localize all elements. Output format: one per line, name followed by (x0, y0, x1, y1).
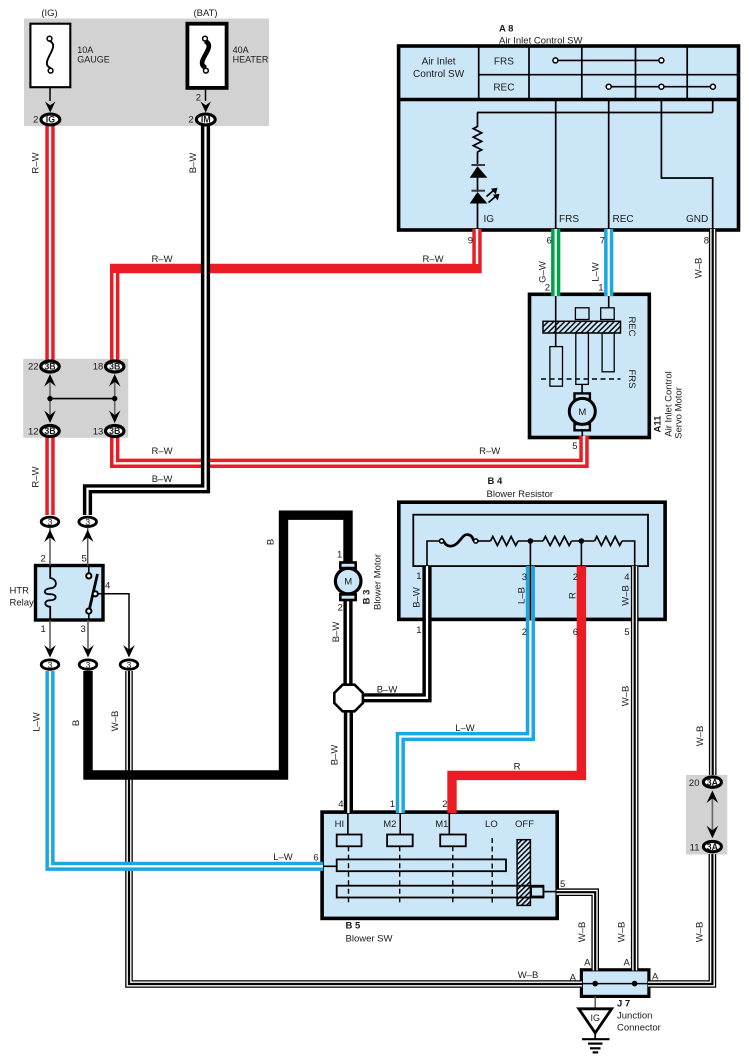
HTR relay switch contact top (88, 566, 90, 573)
wire L-W A8 to A11 (604, 229, 613, 296)
A11 motor brush top (575, 393, 590, 399)
svg-text:HEATER: HEATER (233, 55, 269, 65)
svg-text:1: 1 (337, 550, 342, 561)
junction dot B4 pin3 (528, 538, 534, 544)
svg-text:2: 2 (33, 114, 38, 125)
svg-text:3B: 3B (44, 426, 55, 436)
wire W-B B4 pin5 to J7 (631, 566, 639, 970)
arrow into 3B-18 (109, 374, 121, 387)
svg-text:2: 2 (338, 602, 343, 613)
svg-text:B–W: B–W (330, 745, 341, 766)
diode D1 in A8 (472, 164, 486, 166)
wire R-W from 3B-12 to connector 3 (45, 437, 54, 515)
B4 pin3 stripe line (529, 566, 531, 620)
A8 table column dividers (528, 46, 530, 100)
B5 M2 dashed line (399, 846, 401, 903)
A11 motor wire top (581, 384, 583, 393)
svg-text:3: 3 (86, 660, 91, 670)
svg-text:2: 2 (573, 572, 578, 583)
svg-text:IG: IG (46, 115, 55, 125)
svg-text:B: B (71, 720, 82, 726)
fuse (IG) element (47, 41, 53, 68)
svg-text:B–W: B–W (188, 153, 199, 174)
svg-text:W–B: W–B (621, 686, 632, 707)
svg-text:B–W: B–W (152, 474, 173, 485)
connector 3B pin13 (106, 426, 124, 437)
svg-text:3: 3 (522, 572, 527, 583)
B5 M2 pin wire (399, 814, 401, 835)
B5 pin5 link (543, 891, 558, 893)
A8 box fill (399, 46, 739, 230)
HTR relay pin4 wire (98, 594, 129, 651)
B4 wire fuse-res (478, 540, 491, 542)
A8 box border (399, 46, 739, 230)
svg-text:LO: LO (485, 819, 498, 830)
A8 FRS contact line (555, 59, 661, 61)
B5 box border (322, 812, 557, 918)
svg-text:B 3: B 3 (362, 590, 373, 605)
svg-text:4: 4 (624, 572, 629, 583)
svg-text:9: 9 (468, 236, 473, 247)
ground bar 2 (588, 1042, 603, 1044)
svg-text:4: 4 (338, 799, 343, 810)
svg-text:B–W: B–W (331, 622, 342, 643)
svg-text:4: 4 (105, 581, 110, 592)
wire B-W motor to octagon (343, 598, 352, 686)
svg-text:A: A (623, 958, 630, 969)
svg-text:B 4: B 4 (488, 476, 504, 487)
svg-text:11: 11 (690, 843, 700, 854)
svg-text:R–W: R–W (151, 254, 172, 265)
svg-text:2: 2 (522, 627, 527, 638)
svg-text:3: 3 (85, 517, 90, 527)
A11 REC pin wire (608, 296, 610, 308)
svg-text:3B: 3B (109, 362, 120, 372)
connector 3 below relay W-B (120, 660, 138, 670)
connector 3 on B-W (79, 517, 97, 527)
wire W-B relay to J7 (129, 671, 582, 984)
svg-text:R: R (514, 762, 521, 773)
svg-text:REC: REC (613, 214, 634, 225)
fuse (BAT) lead (205, 88, 207, 101)
A11 right small slider (601, 308, 615, 320)
svg-text:B: B (266, 539, 277, 545)
B4 circuit left leg (427, 541, 440, 566)
svg-text:2: 2 (188, 114, 193, 125)
octagon junction (334, 685, 363, 712)
svg-text:B 5: B 5 (346, 921, 362, 932)
B5 LO dashed line (491, 838, 493, 904)
fuse (IG) box (30, 24, 70, 87)
B5 box fill (322, 812, 557, 918)
svg-text:Servo Motor: Servo Motor (674, 387, 685, 439)
A11 REC hatch bar (543, 321, 621, 333)
A11 box border (530, 294, 650, 437)
B5 slider bar 1 (337, 859, 506, 871)
connector 3 on R-W (41, 517, 59, 527)
arrow into connector 3 left (44, 530, 56, 543)
connector 3A pin20 (703, 777, 721, 787)
blower motor brush bottom (340, 594, 355, 600)
connector 3B pin12 (41, 426, 59, 437)
wire R-W from IG fuse to 3B-22 (45, 122, 54, 360)
svg-text:W–B: W–B (621, 585, 632, 606)
svg-text:W–B: W–B (110, 711, 121, 732)
wire W-B A8 GND to 3A-20 (709, 229, 717, 775)
svg-text:W–B: W–B (617, 922, 628, 943)
svg-text:Connector: Connector (617, 1023, 661, 1034)
svg-text:R–W: R–W (422, 254, 443, 265)
connector 3A pin11 (703, 841, 721, 851)
B5 M1 dashed line (452, 846, 454, 903)
svg-text:OFF: OFF (515, 819, 534, 830)
connector 3B pin22 (41, 361, 59, 372)
B5 M2 contact box (387, 835, 413, 847)
B5 OFF hatch (517, 840, 530, 906)
svg-text:2: 2 (196, 93, 201, 104)
svg-text:1: 1 (41, 624, 46, 635)
blower motor B3 circle (335, 568, 361, 594)
svg-text:A 8: A 8 (499, 24, 513, 35)
A11 left slider (550, 347, 563, 387)
svg-text:IG: IG (590, 1013, 600, 1023)
arrow into 3A-11 (707, 826, 719, 839)
B4 circuit right leg (622, 541, 635, 566)
svg-text:Relay: Relay (10, 598, 35, 609)
link 3 to relay pin5 (87, 528, 89, 566)
svg-text:6: 6 (573, 627, 578, 638)
B5 HI contact box (337, 835, 362, 847)
svg-text:1: 1 (598, 283, 603, 294)
ground bar 1 (582, 1038, 610, 1040)
A11 FRS pin wire (555, 296, 557, 347)
B4 wire seg2 (518, 540, 543, 542)
B4 wire seg3 (572, 540, 595, 542)
wire B-W octagon to B5 pin4 (344, 711, 353, 814)
svg-text:Blower Resistor: Blower Resistor (487, 489, 554, 500)
svg-text:B–W: B–W (377, 684, 398, 695)
svg-text:3B: 3B (44, 362, 55, 372)
ground bar 3 (590, 1047, 601, 1049)
svg-text:GAUGE: GAUGE (77, 55, 110, 65)
svg-text:20: 20 (689, 778, 700, 789)
HTR relay switch pivot (88, 614, 90, 620)
fuse (BAT) element (202, 41, 209, 68)
svg-text:1: 1 (416, 571, 421, 582)
svg-text:22: 22 (28, 361, 39, 372)
HTR relay switch arm (90, 574, 98, 608)
svg-text:A: A (570, 973, 577, 984)
B4 box fill (399, 502, 665, 619)
junction dot B4 pin2 (579, 538, 585, 544)
arrow into lower oval W-B (123, 645, 135, 658)
svg-text:IM: IM (201, 115, 211, 125)
svg-text:5: 5 (560, 879, 565, 890)
svg-text:Blower Motor: Blower Motor (373, 554, 384, 610)
A11 FRS dashed line (541, 378, 621, 380)
svg-text:7: 7 (600, 236, 605, 247)
connector 3A gray box (686, 775, 727, 855)
link relay pin3 to oval (87, 620, 89, 650)
A8 FRS column wire (555, 101, 557, 229)
wire W-B B5 pin5 to J7 (557, 892, 596, 970)
svg-text:R–W: R–W (31, 152, 42, 173)
svg-text:J 7: J 7 (617, 999, 630, 1010)
A8 REC contact line (609, 86, 713, 88)
J7 junction dot right (632, 981, 638, 987)
motor M in A11 (569, 398, 595, 424)
HTR relay box border (36, 566, 104, 621)
svg-text:13: 13 (93, 426, 104, 437)
svg-text:2: 2 (545, 283, 550, 294)
svg-text:M2: M2 (383, 819, 396, 830)
connector 3 below relay L-W (41, 660, 59, 670)
B4 tap pin2 (580, 541, 582, 566)
arrow into IG oval (45, 102, 55, 113)
resistor 1 in B4 (491, 537, 519, 546)
svg-text:(BAT): (BAT) (193, 8, 217, 19)
A8 REC column wire (608, 101, 610, 229)
svg-text:REC: REC (626, 316, 637, 336)
svg-text:FRS: FRS (559, 214, 579, 225)
svg-text:3B: 3B (109, 426, 120, 436)
B4 box border (399, 502, 665, 619)
arrow into lower oval 1 (44, 645, 56, 658)
svg-text:10A: 10A (77, 45, 93, 55)
B5 pin6 link (322, 865, 337, 867)
svg-text:M: M (578, 407, 586, 418)
3B link cross (50, 398, 115, 400)
svg-text:A: A (584, 958, 591, 969)
resistor in A8 (473, 127, 481, 153)
A11 mid tall slider (576, 333, 589, 384)
arrow into 3B-13 (109, 411, 121, 424)
wire L-B B4 to B5 M2 (400, 566, 530, 813)
svg-text:M1: M1 (435, 819, 448, 830)
svg-text:L–W: L–W (455, 723, 475, 734)
resistor 3 in B4 (595, 537, 623, 546)
svg-text:2: 2 (41, 554, 46, 565)
B4 tap pin3 (529, 541, 531, 566)
svg-text:6: 6 (313, 853, 318, 864)
connector 3B pin18 (106, 361, 124, 372)
svg-text:A11: A11 (653, 415, 664, 433)
A8 GND cell stub (712, 101, 714, 113)
wire L-W relay to B5 pin6 (50, 671, 323, 866)
svg-text:3: 3 (127, 660, 132, 670)
svg-text:(IG): (IG) (41, 8, 57, 19)
svg-text:W–B: W–B (518, 970, 539, 981)
svg-text:A: A (652, 972, 659, 983)
blower motor brush top (340, 563, 355, 569)
wire W-B 3A-11 to J7 (648, 854, 712, 984)
arrow into 3B-12 (44, 411, 56, 424)
arrow into 3B-22 (44, 374, 56, 387)
svg-text:FRS: FRS (626, 370, 637, 389)
svg-text:Air Inlet Control SW: Air Inlet Control SW (499, 36, 582, 47)
HTR relay coil (45, 566, 56, 620)
wire B from relay to blower motor (88, 515, 348, 775)
ground triangle IG (579, 1009, 612, 1033)
svg-text:FRS: FRS (494, 57, 514, 68)
wire R-W from 3B-13 to A11 pin5 (115, 436, 584, 463)
A8 table row divider (479, 74, 739, 76)
svg-text:W–B: W–B (694, 258, 705, 279)
svg-text:R–W: R–W (151, 446, 172, 457)
svg-text:B–W: B–W (412, 587, 423, 608)
ground bar 4 (593, 1051, 599, 1053)
svg-text:G–W: G–W (538, 261, 549, 283)
svg-text:3: 3 (48, 660, 53, 670)
A8 LED branch wire (477, 113, 479, 128)
arrow into 3A-20 (707, 791, 719, 804)
A8 table left cell divider (478, 46, 480, 100)
svg-text:3: 3 (48, 517, 53, 527)
wire G-W A8 to A11 (551, 229, 560, 296)
svg-text:1: 1 (416, 625, 421, 636)
svg-text:HI: HI (335, 819, 345, 830)
svg-text:5: 5 (572, 441, 577, 452)
svg-text:IG: IG (484, 214, 495, 225)
svg-text:Blower SW: Blower SW (346, 934, 393, 945)
fuse panel gray box (24, 19, 269, 127)
svg-text:L–W: L–W (273, 852, 293, 863)
HTR relay pin4 contact (93, 591, 98, 596)
svg-text:R–W: R–W (479, 446, 500, 457)
link relay pin1 to oval (49, 620, 51, 650)
LED arrows (487, 191, 494, 197)
wire R B4 to B5 M1 (452, 566, 581, 813)
svg-text:W–B: W–B (695, 922, 706, 943)
svg-text:R–W: R–W (31, 466, 42, 487)
resistor 2 in B4 (543, 537, 572, 546)
svg-text:1: 1 (390, 799, 395, 810)
fuse (BAT) box (187, 24, 226, 88)
svg-text:5: 5 (82, 554, 87, 565)
wire B-W from IM fuse to connector 3 (88, 122, 206, 515)
B5 pin5 contact box (531, 887, 543, 897)
svg-text:Junction: Junction (617, 1011, 652, 1022)
svg-text:REC: REC (493, 83, 514, 94)
link 3 to relay pin2 (49, 528, 51, 566)
connector oval 2-IM (196, 114, 215, 125)
LED D2 in A8 (472, 190, 486, 192)
svg-text:8: 8 (704, 236, 709, 247)
svg-text:Air Inlet: Air Inlet (422, 57, 456, 68)
B5 HI dashed line (348, 846, 350, 903)
junction dot 3B left (47, 396, 52, 401)
B5 HI pin wire (347, 814, 349, 835)
A8 GND step wire (661, 101, 712, 229)
svg-text:HTR: HTR (10, 586, 30, 597)
svg-text:Control SW: Control SW (413, 69, 465, 80)
svg-text:40A: 40A (233, 45, 249, 55)
wire R-W from A8 pin9 to 3B-18 (115, 229, 477, 360)
J7 junction dot left (592, 981, 598, 987)
wire B-W octagon to B4 pin1 (362, 566, 427, 698)
ground stem (594, 1033, 596, 1039)
svg-text:12: 12 (28, 426, 39, 437)
B5 M1 contact box (440, 835, 466, 847)
connector 3 below relay B (79, 660, 97, 670)
svg-text:L–B: L–B (517, 587, 528, 604)
A11 right tall slider (602, 333, 614, 372)
arrow into connector 3 right (82, 530, 94, 543)
B4 inner box (413, 515, 648, 566)
A8 table bottom thick line (399, 98, 739, 102)
svg-text:L–W: L–W (32, 712, 43, 732)
HTR relay box fill (36, 566, 104, 621)
A8 internal bus (477, 112, 713, 114)
junction dot 3B right (112, 396, 117, 401)
svg-text:W–B: W–B (577, 922, 588, 943)
arrow into IM oval (201, 102, 211, 113)
svg-text:18: 18 (93, 361, 104, 372)
svg-text:2: 2 (442, 799, 447, 810)
3A link (711, 796, 713, 832)
A11 mid small slider (575, 308, 589, 320)
3B link right (114, 379, 116, 419)
J7 box border (581, 970, 649, 997)
J7 internal bus (581, 983, 649, 985)
ground lead (594, 996, 596, 1009)
thermal fuse in B4 (444, 535, 474, 547)
svg-text:3A: 3A (707, 777, 719, 787)
svg-text:5: 5 (624, 627, 629, 638)
3B link left (49, 379, 51, 419)
A11 motor wire bottom (581, 430, 583, 436)
svg-text:6: 6 (547, 236, 552, 247)
svg-text:R: R (568, 592, 579, 599)
A11 box fill (530, 294, 650, 437)
arrow into lower oval 3 (82, 645, 94, 658)
svg-text:3A: 3A (707, 842, 719, 852)
J7 box fill (581, 970, 649, 997)
svg-text:L–W: L–W (591, 262, 602, 282)
connector oval 2-IG (41, 114, 60, 125)
svg-text:M: M (344, 577, 352, 588)
svg-text:GND: GND (686, 214, 708, 225)
fuse (IG) lead (49, 87, 51, 101)
connector 3B gray box (23, 359, 128, 438)
B5 M1 pin wire (448, 814, 450, 835)
svg-text:W–B: W–B (695, 726, 706, 747)
A11 motor brush bottom (575, 424, 590, 430)
B5 slider bar 2 (337, 886, 544, 898)
svg-text:3: 3 (81, 624, 86, 635)
